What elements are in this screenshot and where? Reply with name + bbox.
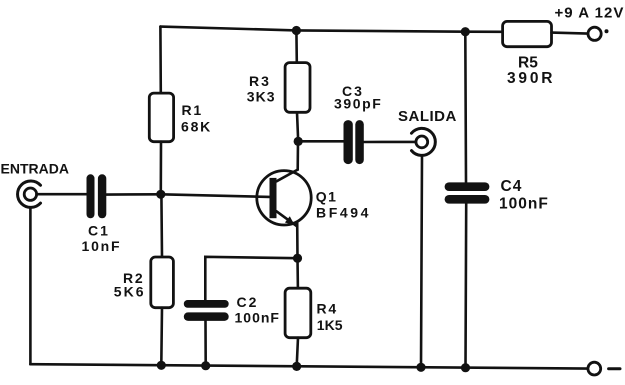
wire base node to Q1 base [161,194,270,197]
terminal +9 A 12V [588,27,601,40]
svg-text:Q1: Q1 [316,188,338,204]
svg-text:3K3: 3K3 [247,89,276,105]
mark dot after +V terminal [605,29,609,33]
svg-text:390pF: 390pF [334,96,382,112]
wire R3 bottom to collector node [297,112,298,141]
resistor R1 [149,93,173,142]
terminal negative [588,362,601,375]
wire SALIDA jack down to ground rail [421,156,422,368]
svg-text:100nF: 100nF [499,196,549,213]
wire right rail top (to C4) [464,32,467,183]
wire collector node to C3 [298,140,343,143]
svg-text:1K5: 1K5 [317,317,343,333]
svg-text:R1: R1 [182,102,204,118]
wire emitter node to R4 [296,258,299,288]
wire C3 to SALIDA jack [364,141,416,144]
node ground rail / right rail [461,363,470,372]
wire right rail bottom (C4 to ground rail) [464,204,467,368]
node collector (junction R3 / Q1 / C3) [294,137,303,146]
wire input jack to C1 [37,193,87,196]
capacitor C2 [184,300,229,321]
wire R2 bottom to ground rail [160,308,163,366]
wire R1 bottom to base node [160,142,163,195]
wire input jack down to ground rail [29,207,32,364]
svg-text:C2: C2 [237,294,259,310]
wire top rail to R5 [465,30,502,33]
node base (junction of C1, R1, R2, base) [156,190,165,199]
wire ground rail (bottom) [30,364,588,368]
wire emitter node to Q1 emitter [296,223,299,259]
node emitter (junction Q1 / R4 / C2) [293,254,302,263]
svg-text:68K: 68K [181,118,212,134]
wire R3 branch: top rail to R3 [295,30,298,62]
node ground rail / SALIDA lead [416,363,425,372]
wire R5 to +V terminal [552,33,588,34]
svg-text:R4: R4 [317,301,339,317]
node ground rail / R2 [157,361,166,370]
svg-text:5K6: 5K6 [114,283,146,299]
terminal SALIDA output jack [412,128,436,155]
svg-text:R5: R5 [518,54,538,71]
transistor Q1 [257,170,311,227]
wire top rail [160,27,465,32]
wire emitter node to C2 [205,257,297,300]
svg-text:C1: C1 [88,223,110,239]
svg-text:ENTRADA: ENTRADA [1,160,69,176]
node ground rail / R4 [292,362,301,371]
resistor R4 [285,288,311,338]
wire collector node down to Q1 collector [296,141,299,169]
svg-text:+9 A 12V: +9 A 12V [555,4,625,21]
wire C2 to ground rail [204,321,207,366]
wire base node to R2 [160,194,163,257]
node top rail / R3 branch [292,26,301,35]
svg-text:C4: C4 [501,178,523,195]
svg-text:390R: 390R [507,70,555,87]
capacitor C4 [445,182,490,203]
wire R1 branch top vertical [159,27,162,94]
svg-text:BF494: BF494 [316,204,371,220]
resistor R3 [285,63,310,113]
resistor R5 [503,21,552,46]
svg-text:R3: R3 [249,73,271,89]
resistor R2 [151,257,174,308]
wire R4 to ground rail [297,338,298,367]
node ground rail / C2 [201,361,210,370]
label negative sign [609,367,620,370]
wire C1 to base node [106,193,161,196]
capacitor C1 [87,174,107,218]
capacitor C3 [344,120,364,164]
svg-text:10nF: 10nF [82,238,122,254]
svg-text:100nF: 100nF [235,310,280,326]
node top rail / right rail [461,27,470,36]
terminal ENTRADA input jack [18,181,41,207]
svg-text:SALIDA: SALIDA [398,108,457,125]
